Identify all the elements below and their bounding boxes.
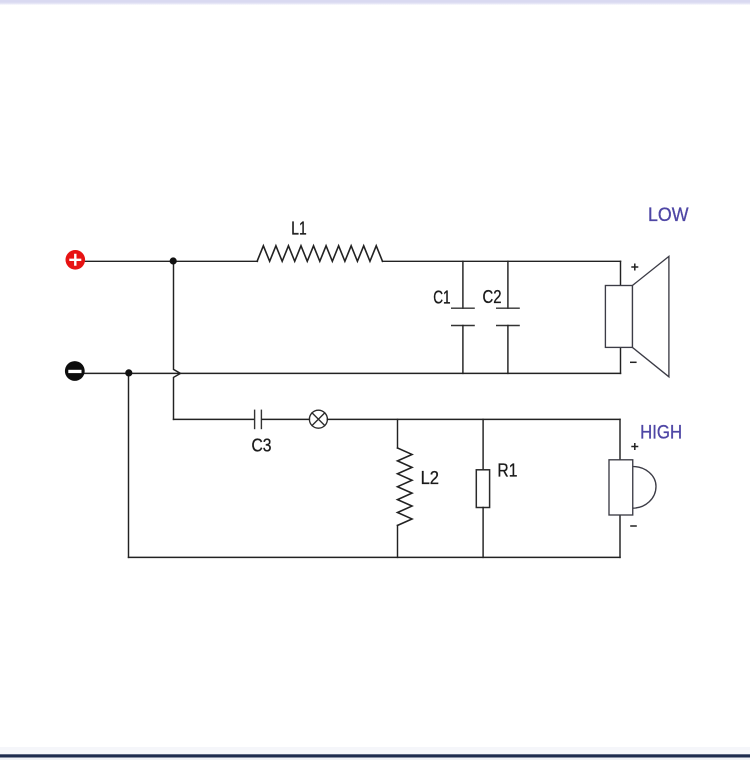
- top lavender band: [0, 0, 750, 3]
- svg-text:C1: C1: [433, 287, 450, 307]
- svg-text:HIGH: HIGH: [640, 422, 682, 444]
- svg-text:LOW: LOW: [648, 204, 689, 226]
- wire: C1 bottom stub: [462, 326, 464, 374]
- HIGH speaker plus mark: [631, 443, 638, 450]
- node junction on plus rail: [170, 257, 177, 264]
- wire: C2 bottom stub: [507, 326, 509, 374]
- bottom navy rule: [0, 754, 750, 757]
- wire: junction A to L1: [174, 260, 258, 262]
- wire: minus rail: [84, 372, 621, 374]
- wire: C3 to lamp: [262, 418, 309, 420]
- capacitor C2: [497, 308, 519, 325]
- wire: lamp to HIGH speaker corner: [327, 418, 620, 420]
- wire: R1 top stub: [482, 419, 484, 469]
- wire: minus junction drop: [128, 373, 130, 557]
- wire: plus terminal to junction A: [84, 260, 174, 262]
- capacitor C1: [452, 308, 474, 325]
- wire: branch corner to C3: [174, 418, 254, 420]
- svg-text:C2: C2: [483, 287, 502, 307]
- plus input terminal: [66, 250, 86, 270]
- bottom below-rule band: [0, 758, 750, 760]
- lamp fuse symbol (circle with X): [309, 410, 327, 428]
- HIGH speaker (tweeter): [609, 460, 656, 515]
- wire: C1 top stub: [462, 261, 464, 308]
- wire: LOW speaker minus up: [620, 347, 622, 373]
- svg-text:L1: L1: [291, 219, 306, 239]
- svg-text:L2: L2: [421, 468, 439, 488]
- wire: L2 bottom stub: [397, 525, 399, 557]
- LOW speaker (woofer): [605, 256, 669, 376]
- wire: HIGH speaker minus down to bottom rail: [619, 515, 621, 557]
- svg-text:R1: R1: [497, 461, 517, 481]
- svg-text:C3: C3: [252, 436, 272, 456]
- wire: L2 top stub: [397, 419, 399, 448]
- inductor L1: [257, 246, 382, 262]
- wire: L1 to LOW speaker corner: [383, 260, 621, 262]
- HIGH speaker minus mark: [630, 525, 637, 527]
- node junction on minus rail: [125, 369, 132, 376]
- wire: R1 bottom stub: [482, 508, 484, 558]
- wire: C2 top stub: [507, 261, 509, 308]
- wire: vertical branch with hop over minus rail: [174, 261, 181, 419]
- bottom light band: [0, 747, 750, 754]
- resistor R1: [476, 470, 489, 508]
- wire: down into LOW speaker plus: [620, 261, 622, 285]
- LOW speaker plus mark: [631, 264, 638, 271]
- minus input terminal: [65, 361, 85, 381]
- wire: bottom rail: [129, 556, 621, 558]
- inductor L2: [398, 448, 413, 525]
- capacitor C3: [255, 410, 262, 428]
- wire: down into HIGH speaker plus: [619, 419, 621, 459]
- LOW speaker minus mark: [630, 361, 637, 363]
